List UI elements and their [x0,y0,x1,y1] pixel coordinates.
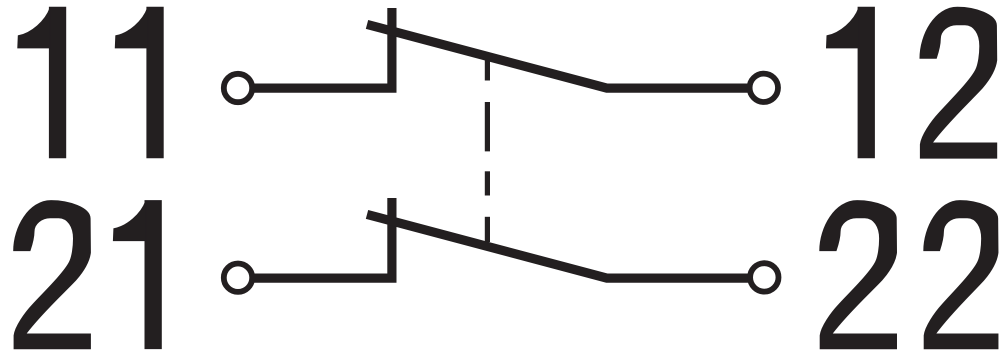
mechanical link (dashed) segment B [485,102,490,151]
terminal circle 21 [224,264,252,292]
wire: terminal 11 to pivot, with vertical riser [251,8,392,88]
mechanical link (dashed) segment A [485,60,490,81]
label 12 digit 1 [827,7,875,158]
label 11 digit 1a [18,7,66,158]
label 21 digit 2 [14,201,91,349]
mechanical link (dashed) segment D [485,217,490,242]
label 22 digit 2b [924,201,998,349]
switch blade contact 11-12 (NC, shown deflected) [367,24,752,88]
terminal circle 22 [750,263,778,291]
terminal circle 11 [224,74,252,102]
mechanical link (dashed) segment C [485,171,490,195]
label 22 digit 2a [820,201,897,349]
label 12 digit 2 [920,7,997,158]
label 21 digit 1 [113,201,161,349]
terminal circle 12 [750,74,778,102]
wire: terminal 21 to pivot, with vertical riser [251,198,392,278]
label 11 digit 1b [115,7,163,158]
switch blade contact 21-22 (NC, shown deflected) [367,214,752,278]
